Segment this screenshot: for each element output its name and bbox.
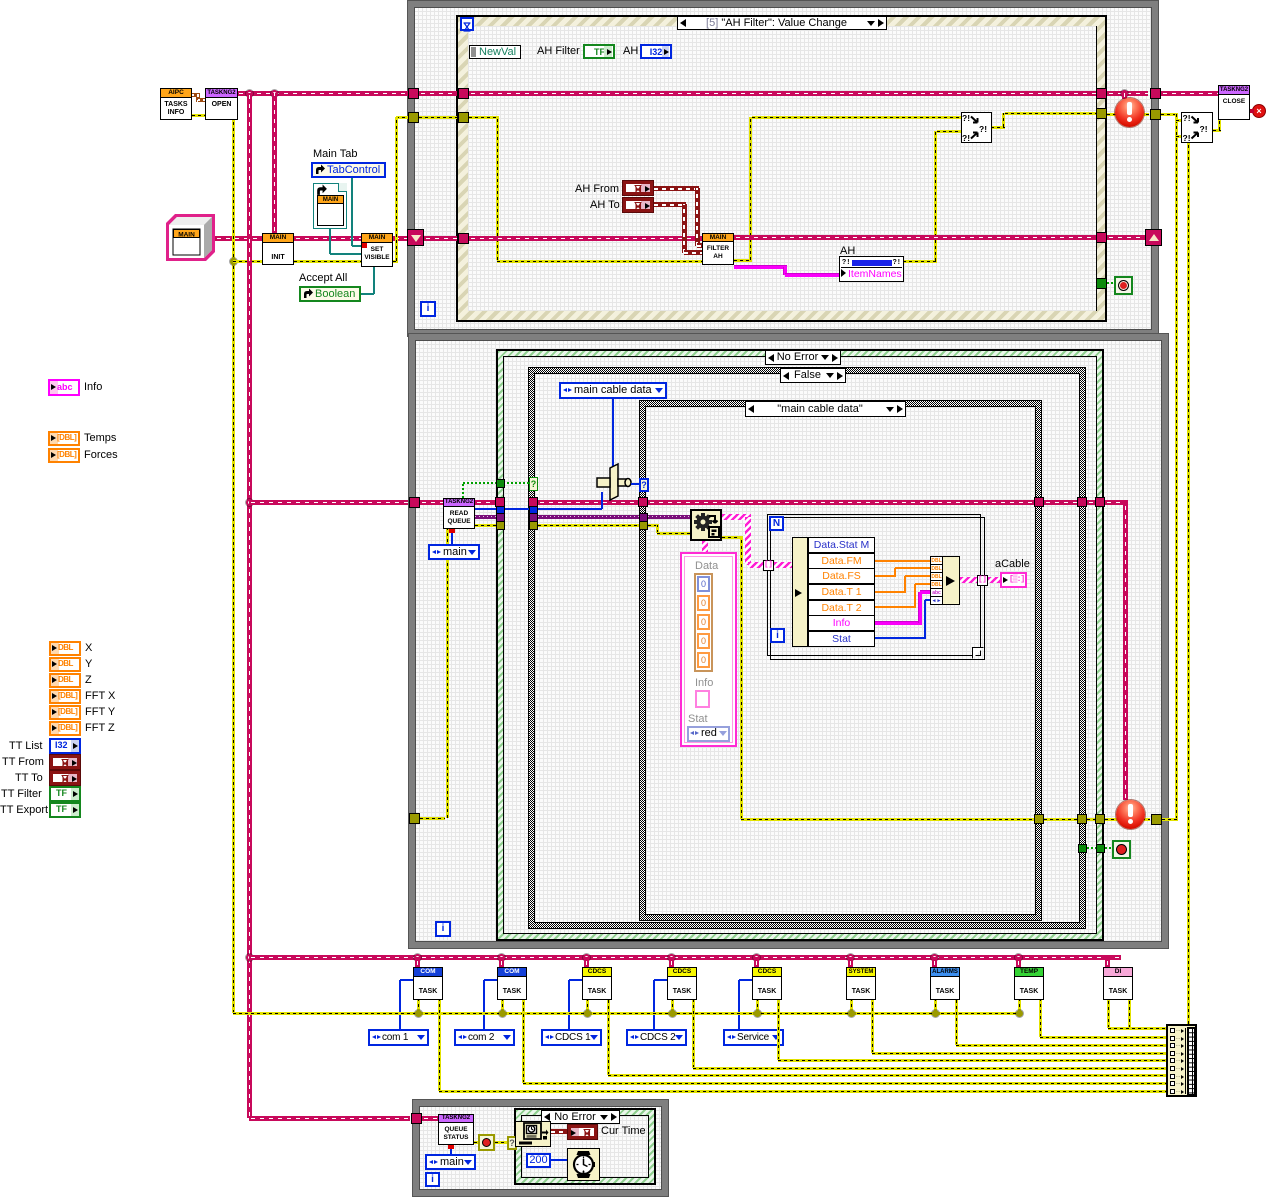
while loop B (middle) (409, 334, 1168, 948)
wire error task 2 left pin (501, 1000, 504, 1013)
wire pink tunnel to QUEUE STATUS (422, 1116, 438, 1121)
wire error event y117 to x497 (469, 116, 499, 119)
wire blue riser to funnel (601, 492, 603, 509)
Data cluster constant (680, 552, 737, 747)
wire pink drop task 5 (754, 957, 759, 967)
tunnel pink event right y237 (1096, 232, 1107, 243)
control TT List I32 (49, 738, 81, 754)
wire pink y502 left of loop (249, 500, 408, 505)
wire pink drop task 9 (1105, 957, 1110, 967)
string constant empty (cluster) (695, 690, 710, 708)
wire error task 2 to merge (522, 1000, 525, 1083)
label Z (85, 674, 92, 687)
wire error up x1003 (1002, 113, 1005, 127)
constant 200 (526, 1153, 551, 1168)
unbundle by name node (792, 537, 875, 647)
wire error task 3 left pin (586, 1000, 589, 1013)
wire purple False to inner (538, 515, 639, 519)
label Forces (84, 449, 118, 462)
label Accept All (299, 272, 347, 285)
tunnel pink loopA left (408, 88, 419, 99)
junction error bus task 4 (669, 1010, 676, 1017)
while loop C (bottom) (413, 1100, 668, 1196)
wire pink to bottom loop (249, 1116, 410, 1121)
wire error jog after inner (648, 524, 659, 527)
wire pink vertical x274 to INIT (272, 93, 277, 233)
wire orange Data.FM (875, 560, 930, 562)
case structure main cable data (checkered) (639, 400, 1042, 921)
wire error circle A to tunnel (1140, 113, 1149, 116)
wire pink drop task 6 (848, 957, 853, 967)
error circle B (1116, 800, 1145, 829)
wire error y117 to merge node A (752, 116, 961, 119)
case selector ? (loopC) (507, 1136, 517, 1150)
wire error merge B out (1213, 129, 1221, 132)
label Info (84, 381, 102, 394)
junction pink bus task 2 (498, 954, 505, 961)
wire error ItemNames out (903, 260, 937, 263)
junction error bus task 5 (754, 1010, 761, 1017)
merge errors array node (bottom) (1166, 1024, 1197, 1097)
wire error task 1 to merge (438, 1000, 441, 1091)
label Cur Time (601, 1125, 646, 1138)
tunnel pink False right border (1077, 497, 1087, 507)
node MAIN SET VISIBLE (361, 233, 393, 267)
tunnel blue green border (496, 506, 505, 515)
junction error bus task 7 (932, 1010, 939, 1017)
svg-text:?!: ?! (962, 133, 970, 142)
svg-text:?!: ?! (1183, 113, 1191, 123)
tunnel pink loopA right (1150, 88, 1161, 99)
stop button A (1114, 276, 1133, 295)
label FFT Y (85, 706, 115, 719)
junction pink bus task 8 (1015, 954, 1022, 961)
indicator aCable (1000, 572, 1027, 588)
control TT Export TF (49, 802, 81, 818)
funnel comparison node (596, 463, 632, 501)
tunnel pink inner border (638, 497, 648, 507)
junction dot x274 (271, 90, 278, 97)
shift register right (loopA) (1145, 229, 1162, 246)
indicator X DBL (49, 641, 81, 656)
wire hatched tunnel to unbundle (774, 562, 792, 568)
tunnel green on green border (496, 479, 505, 488)
label TT Export (0, 804, 48, 817)
enum constant CDCS 2 (626, 1029, 687, 1046)
wire error task 5 left pin (756, 1000, 759, 1013)
wire pink drop task 3 (584, 957, 589, 967)
stop button B (1112, 840, 1131, 859)
wire blue enum CDCS 2 to task (653, 980, 655, 1029)
label FFT X (85, 690, 115, 703)
wire error task 6 to merge (871, 1000, 874, 1053)
tunnel boolean False right border (1078, 844, 1087, 853)
enum constant main (loopB) (428, 544, 480, 560)
wire pink y502 to green right (1087, 500, 1096, 505)
junction error bus task 3 (584, 1010, 591, 1017)
label TT From (2, 756, 44, 769)
wire timestamp to Cur Time (551, 1129, 567, 1134)
label Main Tab (313, 148, 357, 161)
node Get Date-Time computer icon (515, 1121, 551, 1147)
label Info (cluster) (695, 677, 713, 690)
coercion dot QUEUE STATUS (448, 1145, 454, 1149)
label AH From (575, 183, 619, 196)
junction pink bus task 6 (847, 954, 854, 961)
wire error up x935 (934, 131, 937, 261)
wire magenta Info to bundle (875, 621, 922, 625)
node TASKNG2 CLOSE (1218, 85, 1250, 120)
wire string-array squiggle FILTER AH to ItemNames (734, 265, 787, 269)
wire pink y502 to False right (1044, 500, 1078, 505)
control AH From timestamp (622, 180, 654, 196)
wire error stub into merge B in1 (1176, 119, 1181, 122)
tunnel pink loopC left (411, 1113, 422, 1124)
wire green dotted to stop B (1105, 847, 1112, 849)
wire error into merge A input2 (937, 130, 961, 133)
wire error merge A out (991, 126, 1005, 129)
enum constant main cable data (559, 382, 667, 399)
wire error loopB out y819 (1162, 818, 1178, 821)
wire error task 1 left pin (417, 1000, 420, 1013)
wire error AIPC to OPEN (192, 114, 205, 117)
wire error INIT to SETVIS (294, 260, 361, 263)
wire error task 4 to merge (692, 1000, 695, 1068)
wire teal VIref to SETVIS (329, 229, 331, 254)
Data array of 0s (694, 573, 713, 672)
junction pink x249 y957 (246, 954, 253, 961)
node CDCS TASK 4 (667, 967, 697, 1000)
junction dot x249 (246, 90, 253, 97)
tunnel pink event left y238 (458, 233, 469, 244)
wire pink y502 to corner (1105, 500, 1128, 505)
wire purple to gear (648, 515, 690, 519)
wire pink FILTER AH to event right (734, 235, 1096, 240)
wire blue funnel out (631, 483, 639, 485)
wire green dotted READ QUEUE boolean (462, 483, 464, 498)
wire error inside loopA y117 (419, 116, 457, 119)
wire hatched gear type to Data cluster (702, 541, 708, 552)
wire error up x750 (749, 117, 752, 260)
tunnel pink green border (495, 497, 505, 507)
node COM TASK 2 (497, 967, 527, 1000)
tunnel error loopA left (408, 112, 419, 123)
indicator Cur Time (567, 1124, 598, 1140)
wire blue 200 to wait (551, 1159, 567, 1161)
wire pink cube to INIT (215, 236, 262, 241)
wire pink SR to event (424, 236, 457, 241)
wire error y261 to INIT (233, 260, 262, 263)
node ALARMS TASK 7 (930, 967, 960, 1000)
enum constant red (cluster) (687, 726, 730, 742)
tunnel pink inner right border (1034, 497, 1044, 507)
wire orange Data.FS (875, 575, 896, 577)
case structure No Error (loopC) (514, 1108, 656, 1185)
wire pink bus y957 (249, 955, 1121, 960)
indicator Forces [DBL] (48, 448, 80, 463)
wire error OPEN down x233 (232, 120, 235, 1013)
control AH To timestamp (622, 197, 654, 213)
wire error y525 READ QUEUE out (475, 524, 496, 527)
tunnel pink event right (1096, 88, 1107, 99)
wire error bus y1013 (233, 1012, 1019, 1015)
tunnel array-in for loop (763, 560, 774, 571)
wire blue READ QUEUE y509 (475, 508, 602, 510)
wire error FILTER AH out (734, 259, 752, 262)
wire blue main enum to QUEUE STATUS (450, 1145, 452, 1154)
wire error task 8 left pin (1018, 1000, 1021, 1013)
wire pink y502 False to inner (538, 500, 639, 505)
case structure No Error (green) (496, 349, 1104, 941)
junction error x233 y261 (230, 258, 237, 265)
wire pink to CLOSE (1161, 91, 1218, 96)
event timeout terminal (460, 17, 474, 31)
control ref Boolean (299, 286, 361, 302)
wire pink drop task 8 (1016, 957, 1021, 967)
node MAIN FILTER AH (702, 233, 734, 265)
for loop (767, 514, 985, 660)
wire error stub into merge B in2 (1176, 135, 1181, 138)
indicator Z DBL (49, 673, 81, 688)
wire blue enum to READ QUEUE (451, 531, 453, 546)
junction pink bus task 4 (668, 954, 675, 961)
indicator FFT Z DBL (49, 721, 81, 736)
wire error y262 to FILTER AH (497, 260, 702, 263)
gear node Variant To Data (690, 509, 722, 541)
merge errors node A (961, 112, 992, 143)
iteration terminal loopB (435, 921, 451, 937)
enum constant com 2 (454, 1029, 515, 1046)
indicator Y DBL (49, 657, 81, 672)
junction pink bus task 3 (583, 954, 590, 961)
tunnel error False border (529, 521, 538, 530)
control TT To timestamp (49, 770, 81, 786)
wire pink drop task 1 (415, 957, 420, 967)
node TASKNG2 OPEN (205, 88, 238, 120)
junction pink bus task 1 (414, 954, 421, 961)
wire error y819 to inner right (741, 818, 1035, 821)
label TT Filter (1, 788, 42, 801)
node CDCS TASK 5 (752, 967, 782, 1000)
label AH To (590, 199, 620, 212)
error circle A (1115, 98, 1144, 127)
wire pink inside loopA (419, 91, 457, 96)
wire orange Data.T1 (875, 591, 906, 593)
wire error task 7 left pin (934, 1000, 937, 1013)
junction error bus task 1 (415, 1010, 422, 1017)
wire error y819 to green right (1087, 818, 1096, 821)
iteration terminal loopC (425, 1172, 440, 1187)
case selector ? (False) (529, 477, 538, 491)
wire pink y237 to SR right (1107, 235, 1147, 240)
tunnel error loopB left (409, 813, 420, 824)
wire error QUEUE STATUS to stop glyph (474, 1141, 478, 1144)
case header No Error (loopC) (541, 1110, 620, 1124)
tunnel error loopA right (1150, 109, 1161, 120)
wire error circle B to loop tunnel (1142, 818, 1150, 821)
wire error task 4 left pin (671, 1000, 674, 1013)
label FFT Z (85, 722, 115, 735)
junction pink bus task 7 (931, 954, 938, 961)
wire blue enum drop to funnel (612, 399, 614, 468)
node DI TASK 9 (1103, 967, 1133, 1000)
wire error task 6 left pin (850, 1000, 853, 1013)
tunnel error False right border (1077, 814, 1087, 824)
control TT From timestamp (49, 754, 81, 770)
tunnel pink green right border (1095, 497, 1105, 507)
property node AH ItemNames (839, 256, 904, 282)
junction dot pink x1124 (1121, 90, 1128, 97)
enum constant Service (723, 1029, 784, 1046)
wire error into loopB tunnel (414, 817, 445, 820)
wire error up into CLOSE (1218, 120, 1221, 130)
wire error task 3 to merge (607, 1000, 610, 1075)
wire blue enum CDCS 1 to task (568, 980, 570, 1029)
wire error READ QUEUE riser x447 (446, 529, 449, 818)
svg-text:?!: ?! (979, 124, 987, 134)
case structure False (checkered) (528, 367, 1086, 929)
wire brown AIPC to OPEN (192, 93, 200, 97)
wire error vertical x1176 long (1175, 114, 1178, 819)
terminal AH Filter TF (583, 44, 615, 59)
wire pink y502 inside inner case (648, 500, 1035, 505)
tunnel boolean event right (1096, 278, 1107, 289)
node AIPC TASKS INFO (160, 88, 192, 120)
wire error dotted stop to selector (495, 1141, 507, 1144)
wire green dotted to green border (1087, 847, 1096, 849)
label TT List (9, 740, 42, 753)
tunnel pink False border (528, 497, 538, 507)
tunnel error event right (1096, 108, 1107, 119)
wire hatched bundle out (960, 577, 979, 583)
wire pink drop to circle B (1123, 502, 1128, 800)
tunnel boolean green right border (1096, 844, 1105, 853)
wire red stub CLOSE to X (1250, 109, 1254, 113)
node COM TASK 1 (413, 967, 443, 1000)
static VI reference MAIN (313, 183, 347, 229)
node TASKNG2 READ QUEUE (443, 498, 475, 529)
wire blue Stat to bundle (875, 637, 926, 639)
case header No Error (loopB) (765, 350, 841, 365)
wire hatched gear to for loop (722, 514, 751, 520)
wire pink event y238 to FILTER AH (469, 236, 702, 241)
node SYSTEM TASK 6 (846, 967, 876, 1000)
wire pink READ QUEUE to green border (475, 500, 496, 505)
case header False (780, 368, 846, 383)
node TASKNG2 QUEUE STATUS (438, 1114, 474, 1145)
terminal AH I32 (640, 44, 672, 59)
label Data (cluster) (695, 560, 718, 573)
wire blue enum Service to task (738, 980, 740, 1029)
wire error vertical x1188 to bottom merge (1187, 143, 1190, 1024)
iteration terminal loopA (420, 301, 436, 317)
wire pink INIT to SETVIS (294, 236, 361, 241)
junction pink bus task 5 (753, 954, 760, 961)
wire error SETVIS riser to loopA (396, 116, 408, 119)
event header [5] AH Filter: Value Change (677, 16, 887, 30)
for loop N terminal (769, 516, 784, 531)
tunnel array-out for loop (977, 575, 988, 586)
wire error task 8 to merge (1039, 1000, 1042, 1037)
stop glyph boolean (478, 1134, 495, 1151)
junction error bus task 6 (848, 1010, 855, 1017)
node CDCS TASK 3 (582, 967, 612, 1000)
coercion dot READ QUEUE (449, 529, 455, 533)
indicator Info (string) (48, 379, 80, 396)
tunnel error inner right border (1034, 814, 1044, 824)
svg-text:?!: ?! (962, 113, 970, 123)
wire pink event-to-loop y93 (1107, 91, 1148, 96)
wire error task 9 to merge (1128, 1000, 1131, 1028)
wire pink SETVIS to shift register (393, 236, 409, 241)
label AH Filter (537, 45, 580, 58)
node Wait Until Next ms Multiple (567, 1148, 600, 1181)
tunnel blue False border (529, 506, 538, 515)
wire error DI left pin (1107, 1000, 1110, 1028)
svg-text:MAIN: MAIN (178, 232, 195, 239)
indicator FFT Y DBL (49, 705, 81, 720)
coercion dot SETVIS input (362, 243, 367, 248)
shift register left (loopA) (407, 229, 424, 246)
wire error y525 False to inner (538, 524, 639, 527)
wire pink drop to error circle (1122, 93, 1127, 99)
node MAIN INIT (262, 233, 294, 265)
label AH (ItemNames) (840, 245, 855, 258)
wire error task 7 to merge (955, 1000, 958, 1045)
wire error loopA out to x1176 (1161, 113, 1178, 116)
enum constant com 1 (368, 1029, 429, 1046)
svg-text:?!: ?! (1200, 124, 1208, 134)
event data node NewVal (469, 45, 521, 59)
indicator FFT X DBL (49, 689, 81, 704)
wire error riser x396 (395, 117, 398, 261)
tunnel error green right border (1095, 814, 1105, 824)
wire pink vertical x249 (247, 93, 252, 1118)
wire error gear out down x741 (722, 536, 743, 539)
wire teal Boolean to SETVIS (361, 293, 374, 295)
wire pink inside event y93 (469, 91, 1096, 96)
label AH (623, 45, 638, 58)
wire error task 5 to merge (777, 1000, 780, 1060)
tunnel purple inner border (639, 513, 648, 522)
wire pink drop task 4 (669, 957, 674, 967)
label aCable (995, 558, 1030, 571)
wire error y113 to event right (1005, 112, 1096, 115)
wire error to circle A (1107, 113, 1120, 116)
enum constant main (loopC) (425, 1154, 476, 1170)
label Temps (84, 432, 116, 445)
wire error SETVIS out (393, 260, 398, 263)
tunnel error event left (458, 112, 469, 123)
junction pink x249 y502 (246, 499, 253, 506)
label Stat (cluster) (688, 713, 708, 726)
label Y (85, 658, 92, 671)
wire purple y517 (475, 515, 496, 519)
wire pink drop task 2 (499, 957, 504, 967)
tunnel error green border (496, 521, 505, 530)
label TT To (15, 772, 43, 785)
tunnel error inner border (639, 521, 648, 530)
wire timestamp AH To (654, 202, 686, 207)
label X (85, 642, 92, 655)
junction error bus task 8 (1016, 1010, 1023, 1017)
wire pink tunnel to READ QUEUE (420, 500, 443, 505)
wire blue enum com 2 to task (483, 980, 485, 1029)
control ref TabControl (311, 162, 386, 178)
tunnel purple False border (529, 513, 538, 522)
control TT Filter TF (49, 786, 81, 802)
bundle node (930, 556, 960, 605)
